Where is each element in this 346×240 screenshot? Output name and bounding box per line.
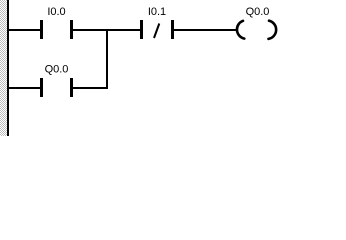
- wire rung1: contact I0.1 to coil Q0.0: [174, 29, 237, 31]
- label I0.1: [148, 6, 166, 18]
- wire rung2: rail to contact Q0.0: [9, 87, 40, 89]
- svg-text:I0.0: I0.0: [47, 6, 65, 18]
- label Q0.0 (coil): [246, 6, 270, 18]
- contact I0.0 (NO): [40, 20, 73, 39]
- wire rung1: rail to contact I0.0: [9, 29, 40, 31]
- wire rung1: contact I0.0 to contact I0.1 (through branch node): [73, 29, 140, 31]
- svg-text:Q0.0: Q0.0: [246, 6, 270, 18]
- contact I0.1 (NC): [140, 20, 174, 39]
- coil Q0.0: [237, 21, 276, 39]
- left power rail: [7, 0, 9, 136]
- contact Q0.0 (NO, parallel branch): [40, 78, 73, 97]
- svg-text:Q0.0: Q0.0: [45, 64, 69, 76]
- label Q0.0 (contact): [45, 64, 69, 76]
- wire rung2: contact Q0.0 to branch vertical: [73, 87, 108, 89]
- svg-text:I0.1: I0.1: [148, 6, 166, 18]
- left margin dither strip: [0, 0, 7, 136]
- branch vertical wire (node joining rung1 and parallel branch): [106, 29, 108, 89]
- label I0.0: [47, 6, 65, 18]
